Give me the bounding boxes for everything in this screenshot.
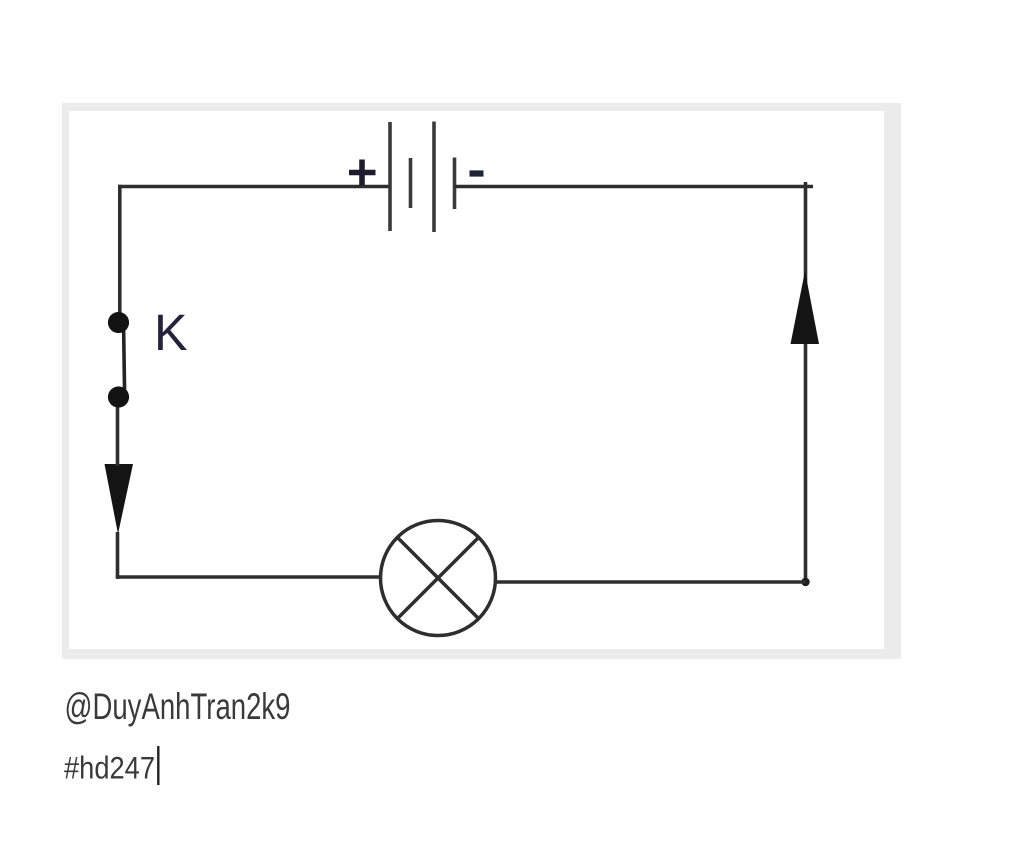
svg-text:#hd247: #hd247 (64, 750, 155, 786)
battery B1 (two cells) (390, 122, 455, 233)
wire: top-left vertical (corner down to switch top dot) (118, 185, 122, 318)
battery polarity label - (470, 170, 484, 176)
text cursor after #hd247 (157, 746, 159, 785)
wire: top-left corner to battery positive plate (118, 185, 390, 189)
switch K blade (closed contact) (124, 327, 125, 394)
wire: right vertical (top-right corner down to bottom-right corner) (804, 182, 808, 582)
wire: left vertical lower (arrow tip to bottom-left corner) (116, 532, 120, 579)
battery polarity label + (349, 160, 376, 186)
wire: battery negative plate to top-right corner (455, 185, 814, 189)
wire: lamp left terminal to bottom-left corner (116, 575, 381, 579)
circuit canvas panel (light gray frame) (62, 103, 901, 659)
wire: left vertical between switch bottom dot and arrow (116, 397, 120, 466)
circuit canvas white interior (69, 111, 884, 649)
switch K terminal dot (bottom) (108, 386, 129, 407)
current direction arrow (down) on left wire (105, 464, 134, 534)
switch K terminal dot (top) (108, 312, 129, 333)
current direction arrow (up) on right wire (791, 271, 820, 344)
svg-text:@DuyAnhTran2k9: @DuyAnhTran2k9 (65, 685, 291, 727)
node: bottom-right corner junction (801, 578, 809, 586)
wire: bottom-right corner to lamp right terminal (496, 580, 806, 584)
svg-text:K: K (154, 304, 188, 361)
lamp L1 (bulb: circle with cross) (381, 521, 496, 636)
